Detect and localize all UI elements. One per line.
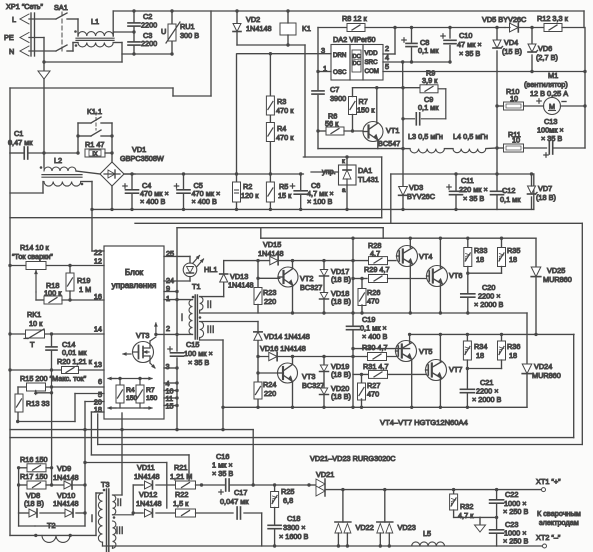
svg-text:R8 12 к: R8 12 к (342, 14, 367, 23)
svg-text:K1: K1 (302, 24, 311, 33)
svg-text:R2: R2 (243, 182, 252, 191)
svg-text:470: 470 (367, 390, 379, 399)
svg-text:× 250 В: × 250 В (503, 507, 528, 516)
svg-text:× 400 В: × 400 В (140, 197, 165, 206)
svg-text:× 2000 В: × 2000 В (474, 300, 504, 309)
svg-text:R33: R33 (474, 246, 487, 255)
svg-text:RU1: RU1 (180, 22, 195, 31)
svg-text:47 мк ×: 47 мк × (457, 40, 482, 49)
svg-text:M1: M1 (548, 71, 558, 80)
svg-text:BYV26C: BYV26C (407, 192, 435, 201)
svg-text:VT6: VT6 (449, 271, 462, 280)
svg-text:120 к: 120 к (241, 191, 259, 200)
svg-text:× 35 В: × 35 В (541, 134, 562, 143)
svg-text:R4: R4 (126, 387, 135, 394)
svg-text:(18 В): (18 В) (331, 275, 351, 284)
svg-text:COM: COM (365, 68, 379, 75)
svg-text:13: 13 (94, 360, 102, 369)
svg-text:(18 В): (18 В) (331, 370, 351, 379)
svg-text:ХР1 “Сеть”: ХР1 “Сеть” (6, 2, 43, 11)
svg-text:3900: 3900 (330, 94, 346, 103)
svg-text:DA1: DA1 (358, 166, 372, 175)
svg-text:GBPC3508W: GBPC3508W (120, 154, 164, 163)
svg-text:электродам: электродам (539, 518, 579, 527)
svg-text:1: 1 (166, 294, 170, 303)
svg-text:R25: R25 (281, 487, 294, 496)
svg-text:VD23: VD23 (398, 523, 416, 532)
svg-text:× 400 В: × 400 В (362, 332, 387, 341)
svg-text:2: 2 (166, 324, 170, 333)
svg-text:R12 3,3 к: R12 3,3 к (537, 14, 569, 23)
svg-text:VT3: VT3 (302, 372, 315, 381)
svg-text:R19: R19 (77, 276, 90, 285)
svg-text:R4: R4 (277, 124, 286, 133)
svg-text:2200: 2200 (141, 21, 157, 30)
svg-text:220: 220 (264, 389, 276, 398)
svg-text:12 В 0,25 А: 12 В 0,25 А (530, 89, 568, 98)
svg-text:VT4: VT4 (419, 252, 432, 261)
svg-text:R34: R34 (474, 342, 487, 351)
svg-text:OSC: OSC (333, 69, 347, 76)
svg-text:1,5 к: 1,5 к (173, 499, 189, 508)
svg-text:R5: R5 (279, 182, 288, 191)
svg-text:R20 1,21 к: R20 1,21 к (57, 357, 93, 366)
svg-text:0,1 мк: 0,1 мк (500, 195, 521, 204)
svg-text:18: 18 (509, 351, 517, 360)
svg-text:DC: DC (353, 61, 361, 67)
svg-text:ХТ2 “–”: ХТ2 “–” (536, 533, 561, 542)
svg-text:VD14 1N4148: VD14 1N4148 (264, 332, 310, 341)
svg-text:× 2000 В: × 2000 В (472, 395, 502, 404)
svg-text:150: 150 (146, 395, 158, 402)
svg-text:PE: PE (4, 33, 14, 42)
svg-text:0,01 мк: 0,01 мк (62, 348, 87, 357)
svg-text:470 к: 470 к (276, 133, 294, 142)
svg-text:R35: R35 (507, 246, 520, 255)
svg-text:× 35 В: × 35 В (459, 49, 480, 58)
svg-text:DA2 VIPer50: DA2 VIPer50 (333, 35, 376, 44)
svg-text:MUR860: MUR860 (532, 371, 561, 380)
svg-text:управления: управления (112, 281, 157, 290)
svg-text:R15 200 “Макс. ток”: R15 200 “Макс. ток” (20, 374, 87, 383)
svg-text:а: а (342, 187, 346, 194)
svg-text:2200: 2200 (141, 39, 157, 48)
svg-text:VD24: VD24 (534, 362, 552, 371)
svg-text:Блок: Блок (125, 268, 144, 277)
svg-text:M: M (549, 102, 555, 111)
svg-text:VD2: VD2 (246, 15, 260, 24)
svg-text:VD21: VD21 (316, 470, 334, 479)
svg-text:BC327: BC327 (300, 283, 322, 292)
svg-text:× 35 В: × 35 В (188, 358, 209, 367)
svg-text:K1.1: K1.1 (87, 107, 102, 116)
svg-text:R7: R7 (146, 387, 155, 394)
svg-text:C15: C15 (186, 340, 199, 349)
svg-text:C18: C18 (287, 514, 300, 523)
svg-text:“Ток сварки”: “Ток сварки” (12, 252, 53, 261)
svg-text:VT2: VT2 (300, 274, 313, 283)
svg-text:Т: Т (30, 340, 35, 349)
svg-text:TL431: TL431 (358, 175, 379, 184)
svg-text:470 к: 470 к (276, 106, 294, 115)
svg-text:150 к: 150 к (357, 106, 375, 115)
svg-text:(15 В): (15 В) (502, 47, 522, 56)
svg-text:18: 18 (509, 255, 517, 264)
svg-text:C17: C17 (234, 488, 247, 497)
svg-text:1N4148: 1N4148 (134, 472, 160, 481)
svg-text:(вентилятор): (вентилятор) (524, 80, 568, 89)
svg-text:(18 В): (18 В) (24, 499, 44, 508)
svg-text:R3: R3 (277, 97, 286, 106)
svg-text:× 1600 В: × 1600 В (279, 532, 309, 541)
svg-text:T3: T3 (101, 480, 110, 489)
svg-text:R21: R21 (174, 463, 187, 472)
svg-text:DRN: DRN (333, 52, 346, 59)
svg-text:R13 33: R13 33 (26, 399, 50, 408)
svg-text:L1: L1 (91, 17, 99, 26)
svg-text:R22: R22 (175, 490, 188, 499)
svg-text:× 35 В: × 35 В (212, 469, 233, 478)
svg-text:1N4148: 1N4148 (53, 473, 79, 482)
svg-text:R17 150: R17 150 (20, 472, 48, 481)
svg-text:VT3: VT3 (136, 331, 149, 340)
svg-text:VT5: VT5 (419, 347, 432, 356)
svg-text:R32: R32 (460, 502, 473, 511)
svg-text:VD5 BYV26C: VD5 BYV26C (482, 15, 526, 24)
svg-text:VT7: VT7 (449, 365, 462, 374)
svg-text:SRC: SRC (365, 59, 379, 66)
svg-text:1N4148: 1N4148 (53, 499, 79, 508)
svg-text:к: к (342, 158, 345, 165)
svg-text:2: 2 (385, 44, 389, 53)
svg-text:L5: L5 (423, 529, 431, 538)
svg-text:C12: C12 (502, 186, 515, 195)
svg-text:C1: C1 (14, 129, 23, 138)
svg-text:VD12: VD12 (139, 490, 157, 499)
svg-text:VD22: VD22 (356, 523, 374, 532)
svg-text:VD16 1N4148: VD16 1N4148 (260, 344, 306, 353)
svg-text:10 к: 10 к (29, 319, 43, 328)
svg-text:L4 0,5 мГн: L4 0,5 мГн (453, 132, 488, 141)
svg-text:SA1: SA1 (54, 3, 68, 12)
svg-text:3,9 к: 3,9 к (422, 76, 438, 85)
svg-text:BC547: BC547 (378, 139, 400, 148)
svg-text:(2,7 В): (2,7 В) (536, 53, 558, 62)
svg-text:(18 В): (18 В) (331, 392, 351, 401)
svg-text:VD3: VD3 (409, 183, 423, 192)
svg-text:15 к: 15 к (278, 191, 292, 200)
svg-text:VT4–VT7 HGTG12N60A4: VT4–VT7 HGTG12N60A4 (380, 418, 468, 427)
svg-text:1N4148: 1N4148 (228, 281, 254, 290)
svg-text:0,1 мк: 0,1 мк (418, 46, 439, 55)
svg-text:R16 150: R16 150 (20, 455, 48, 464)
svg-text:12: 12 (94, 257, 102, 266)
svg-text:RK1: RK1 (27, 310, 41, 319)
svg-text:× 250 В: × 250 В (503, 537, 528, 546)
svg-text:C10: C10 (459, 31, 472, 40)
svg-text:× 400 В: × 400 В (192, 197, 217, 206)
svg-text:0,47 мк: 0,47 мк (8, 138, 33, 147)
svg-text:R30 4,7: R30 4,7 (362, 343, 388, 352)
svg-text:18: 18 (476, 351, 484, 360)
svg-text:L3 0,5 мГн: L3 0,5 мГн (408, 132, 443, 141)
svg-text:VDD: VDD (365, 50, 379, 57)
svg-text:L: L (12, 15, 16, 24)
svg-text:1N4148: 1N4148 (246, 24, 272, 33)
svg-text:C7: C7 (330, 85, 339, 94)
svg-text:VD15: VD15 (263, 240, 281, 249)
svg-text:(18 В): (18 В) (536, 193, 556, 202)
svg-text:R29 4,7: R29 4,7 (364, 265, 390, 274)
svg-text:L2: L2 (54, 156, 62, 165)
svg-text:1,21 М: 1,21 М (170, 472, 192, 481)
svg-text:VD1: VD1 (132, 145, 146, 154)
svg-text:VT1: VT1 (386, 126, 399, 135)
svg-text:VD6: VD6 (538, 44, 552, 53)
svg-text:R23: R23 (263, 288, 276, 297)
svg-text:R24: R24 (263, 380, 276, 389)
svg-text:MUR860: MUR860 (543, 275, 572, 284)
svg-text:R36: R36 (507, 342, 520, 351)
svg-text:3300 ×: 3300 × (283, 523, 306, 532)
svg-text:U: U (161, 27, 166, 36)
svg-text:T1: T1 (192, 282, 201, 291)
svg-text:(18 В): (18 В) (331, 297, 351, 306)
svg-text:6: 6 (98, 377, 102, 386)
svg-text:R31 4,7: R31 4,7 (363, 362, 389, 371)
svg-text:VD9: VD9 (57, 464, 71, 473)
svg-text:3: 3 (166, 362, 170, 371)
svg-text:4,7 к: 4,7 к (458, 511, 474, 520)
svg-text:100 мк ×: 100 мк × (184, 349, 213, 358)
svg-text:1 М: 1 М (79, 285, 91, 294)
svg-text:14: 14 (94, 325, 102, 334)
svg-text:C11: C11 (461, 176, 474, 185)
svg-text:ХТ1 “+”: ХТ1 “+” (536, 477, 561, 486)
svg-text:6,8: 6,8 (283, 496, 293, 505)
svg-text:× 35 В: × 35 В (463, 194, 484, 203)
svg-text:5: 5 (385, 62, 389, 71)
svg-text:10: 10 (512, 136, 520, 145)
svg-text:220 мк ×: 220 мк × (459, 185, 488, 194)
svg-text:VD11: VD11 (137, 463, 155, 472)
svg-text:VD25: VD25 (547, 266, 565, 275)
svg-text:18: 18 (476, 255, 484, 264)
svg-text:HL1: HL1 (204, 265, 217, 274)
svg-text:R1 47: R1 47 (85, 140, 104, 149)
svg-text:IX: IX (92, 152, 98, 158)
svg-text:C22: C22 (505, 490, 518, 499)
svg-text:VD21–VD23 RURG3020C: VD21–VD23 RURG3020C (310, 454, 396, 463)
svg-text:× 100 В: × 100 В (307, 197, 332, 206)
svg-text:150: 150 (126, 395, 138, 402)
svg-text:1N4148: 1N4148 (136, 499, 162, 508)
svg-text:0,047 мк: 0,047 мк (220, 497, 249, 506)
svg-text:300 В: 300 В (180, 31, 199, 40)
svg-text:R14 10 к: R14 10 к (20, 243, 50, 252)
svg-text:К сварочным: К сварочным (537, 509, 581, 518)
svg-text:0,1 мк: 0,1 мк (418, 103, 439, 112)
svg-text:470: 470 (367, 297, 379, 306)
svg-text:VD7: VD7 (538, 184, 552, 193)
svg-text:VD4: VD4 (504, 38, 518, 47)
svg-text:N: N (9, 47, 14, 56)
svg-text:220: 220 (264, 297, 276, 306)
